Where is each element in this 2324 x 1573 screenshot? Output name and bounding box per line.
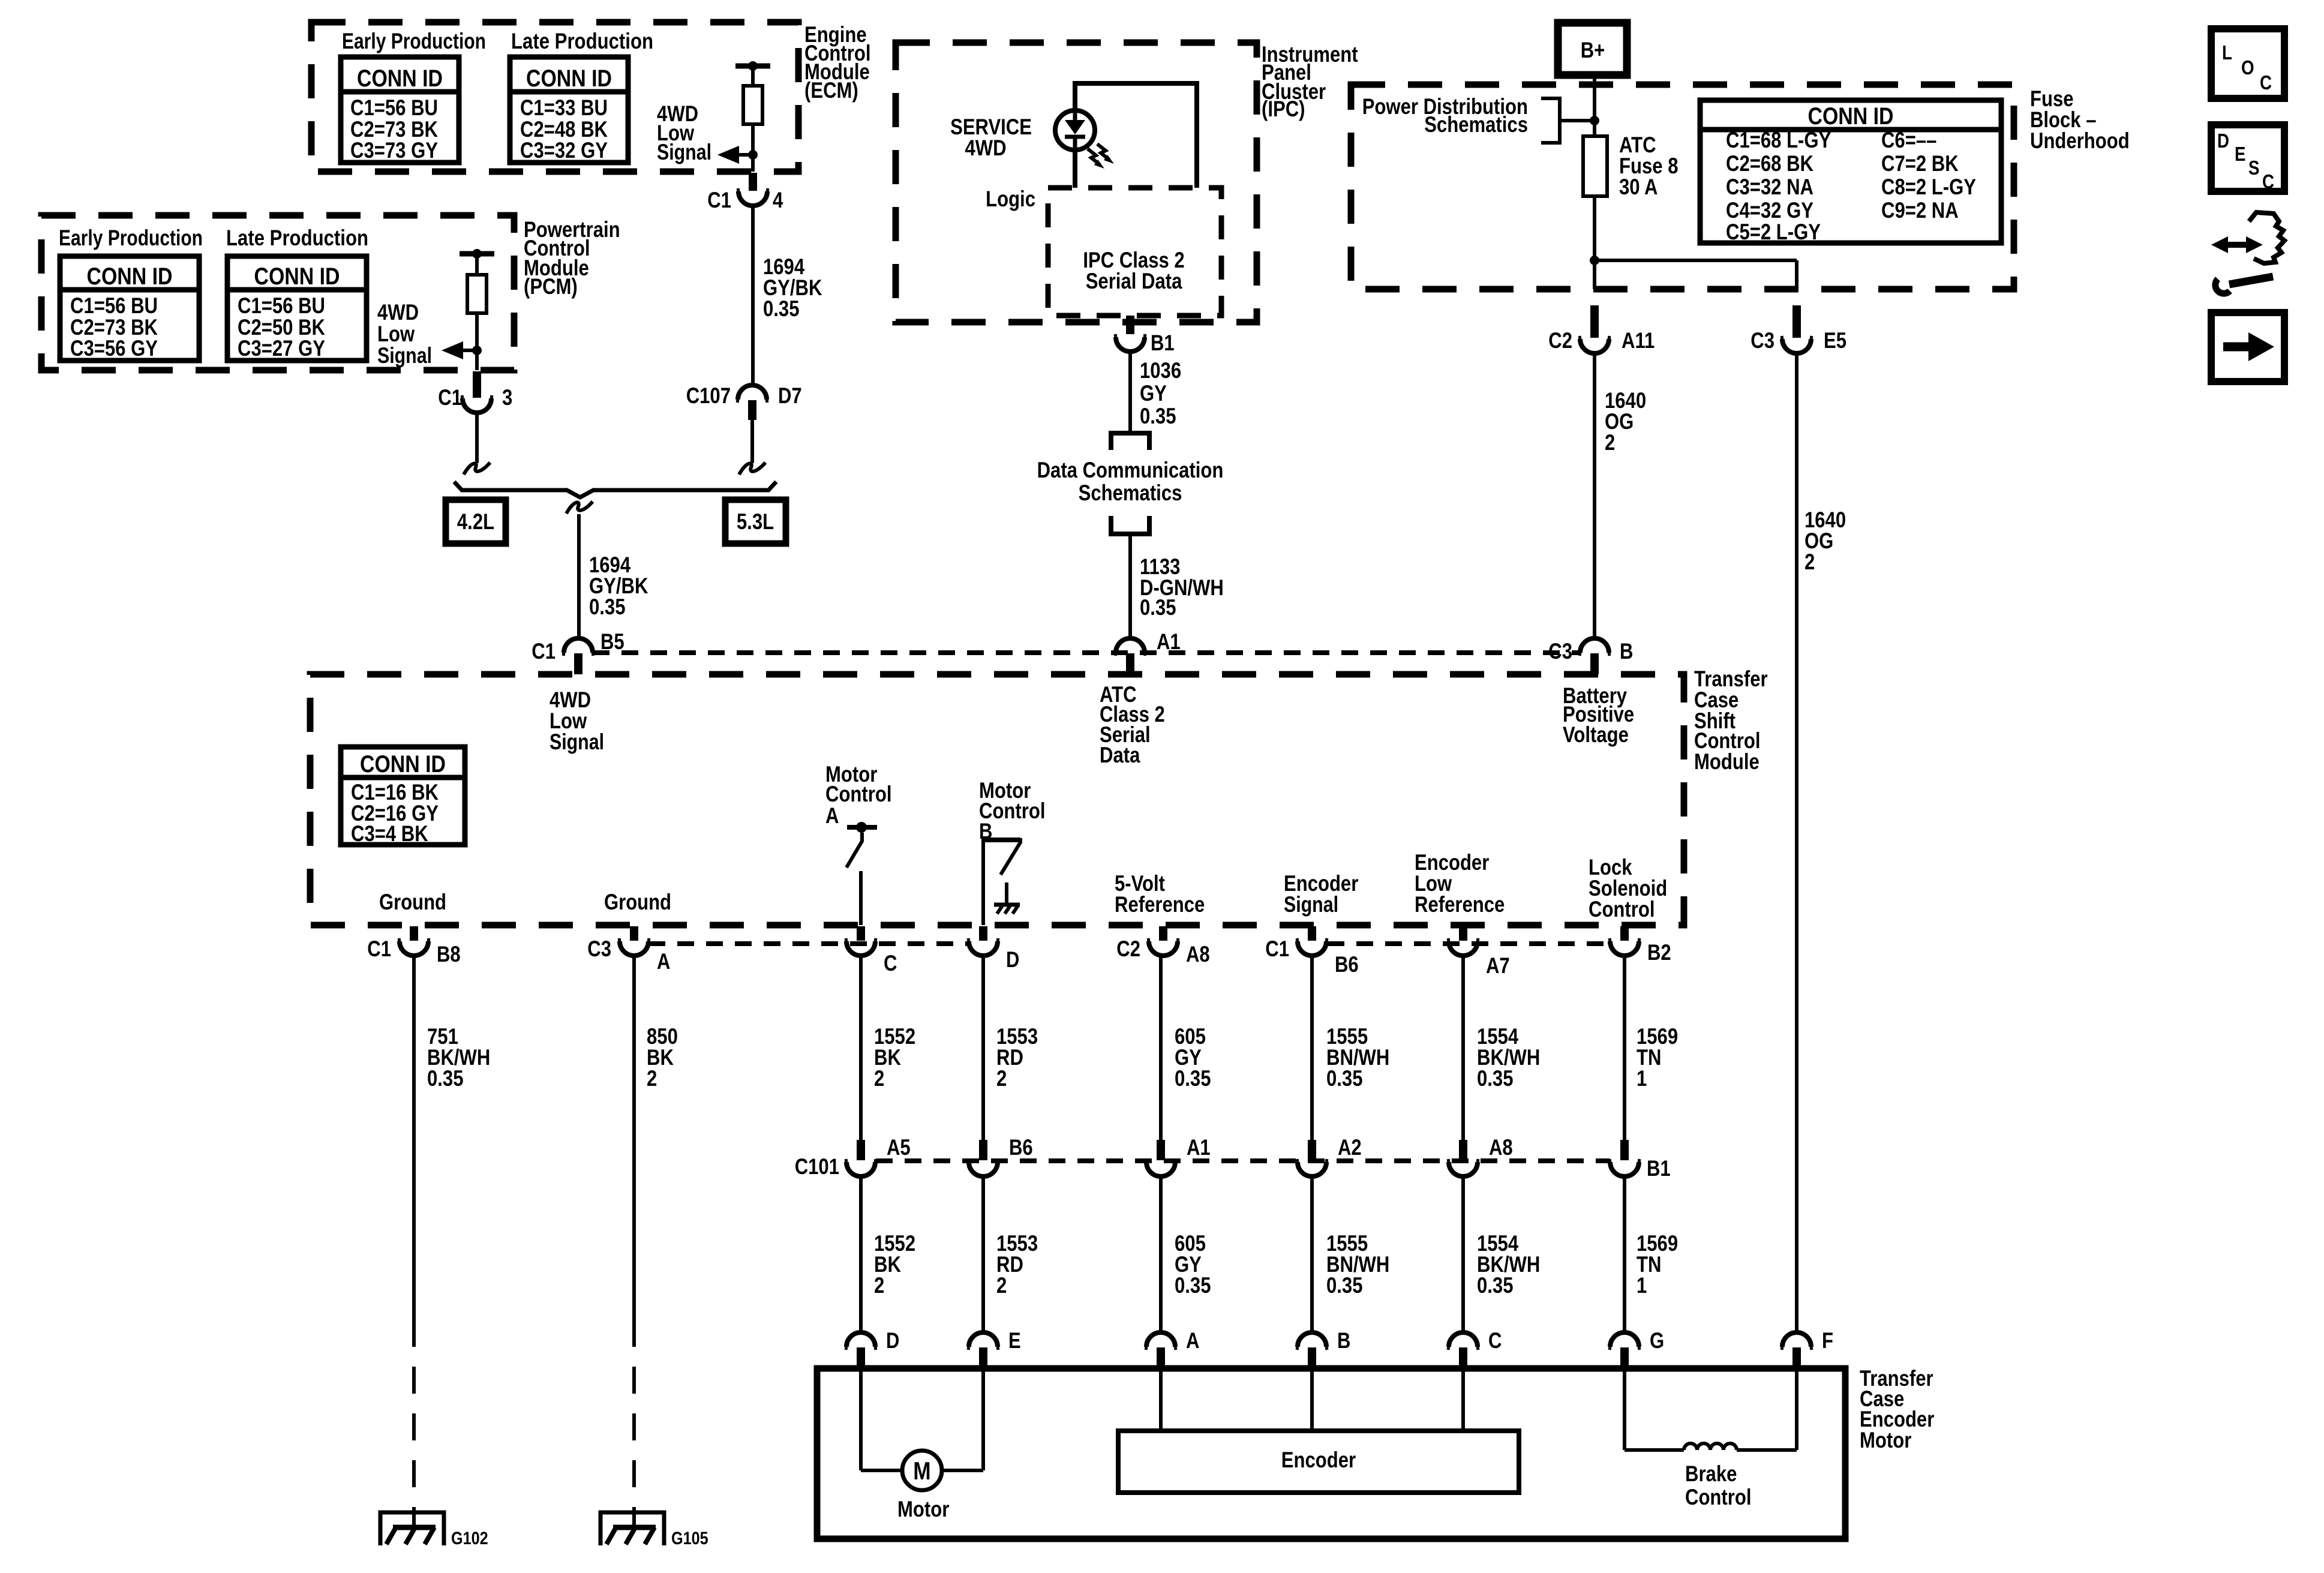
svg-text:A: A bbox=[825, 803, 839, 828]
svg-text:4.2L: 4.2L bbox=[457, 509, 494, 534]
motor M symbol bbox=[902, 1451, 942, 1490]
connector E (encoder motor) bbox=[969, 1332, 998, 1347]
svg-text:Serial Data: Serial Data bbox=[1086, 269, 1182, 293]
svg-text:C5=2 L-GY: C5=2 L-GY bbox=[1726, 220, 1821, 244]
svg-text:G102: G102 bbox=[451, 1529, 488, 1548]
PCM Late Production CONN ID table bbox=[227, 256, 367, 361]
connector Motor A out C (TCSCM bottom) bbox=[857, 926, 865, 941]
svg-text:M: M bbox=[913, 1457, 930, 1485]
svg-text:5.3L: 5.3L bbox=[737, 509, 774, 534]
connector D (encoder motor) bbox=[846, 1332, 875, 1347]
svg-text:C1: C1 bbox=[367, 936, 391, 961]
wire C107 to engine option brace bbox=[750, 420, 754, 463]
svg-text:D7: D7 bbox=[778, 383, 802, 408]
svg-text:C2: C2 bbox=[1116, 936, 1140, 961]
connector Encoder low A7 (TCSCM bottom) bbox=[1459, 926, 1467, 941]
brake control coil circuit bbox=[1623, 1368, 1626, 1450]
wire 850 BK 2 bbox=[632, 956, 636, 1320]
svg-text:Motor: Motor bbox=[1860, 1428, 1911, 1452]
svg-text:Data Communication: Data Communication bbox=[1037, 458, 1224, 482]
junction dot PCM signal bbox=[472, 346, 482, 355]
svg-text:Signal: Signal bbox=[377, 343, 432, 368]
svg-text:C7=2 BK: C7=2 BK bbox=[1881, 151, 1959, 176]
wire 1640 OG 2 (E5 down right side) bbox=[1795, 353, 1798, 1332]
fuse ATC Fuse 8 30A bbox=[1583, 136, 1607, 196]
svg-text:(ECM): (ECM) bbox=[804, 78, 858, 103]
wire 1555 BN/WH 0.35 upper bbox=[1310, 956, 1314, 1140]
svg-text:2: 2 bbox=[1605, 430, 1615, 455]
svg-text:B6: B6 bbox=[1009, 1135, 1033, 1160]
svg-text:1036: 1036 bbox=[1140, 358, 1181, 383]
arrow 4WD Low Signal (PCM) bbox=[463, 349, 477, 352]
connector B1 (IPC) bbox=[1126, 316, 1134, 334]
connector C3-B (TCSCM) bbox=[1580, 638, 1609, 653]
svg-text:F: F bbox=[1822, 1328, 1833, 1353]
ground G105 bbox=[600, 1512, 664, 1545]
engine option brace bbox=[454, 482, 776, 497]
svg-text:Schematics: Schematics bbox=[1079, 481, 1182, 505]
svg-text:Late Production: Late Production bbox=[226, 226, 368, 250]
svg-text:C3: C3 bbox=[1548, 639, 1572, 664]
connector C1-4 (ECM) bbox=[749, 173, 757, 191]
forward arrow icon box bbox=[2211, 313, 2284, 382]
connector C1-B5 bbox=[564, 638, 593, 653]
arrow 4WD Low Signal (ECM) bbox=[739, 153, 753, 157]
svg-text:A1: A1 bbox=[1157, 629, 1181, 654]
connector Ground B8 (TCSCM bottom) bbox=[410, 926, 418, 941]
internal ground (Motor Control B) bbox=[1005, 882, 1008, 905]
svg-text:4WD: 4WD bbox=[965, 136, 1007, 160]
svg-text:Encoder: Encoder bbox=[1281, 1448, 1356, 1472]
motor circuit loop bbox=[859, 1368, 863, 1470]
wire fuse to exits bbox=[1593, 196, 1596, 289]
connector C101 A8 bbox=[1459, 1140, 1467, 1160]
wire branch to E5 bbox=[1595, 259, 1797, 262]
IPC dashed box (Instrument Panel Cluster) bbox=[896, 43, 1257, 322]
svg-text:Schematics: Schematics bbox=[1424, 112, 1528, 137]
svg-text:A8: A8 bbox=[1186, 942, 1210, 966]
connector Motor B out D (TCSCM bottom) bbox=[979, 926, 987, 941]
svg-text:Control: Control bbox=[1589, 897, 1655, 921]
svg-text:Logic: Logic bbox=[986, 187, 1035, 211]
svg-text:C8=2 L-GY: C8=2 L-GY bbox=[1881, 175, 1976, 199]
resistor R-ECM pullup bbox=[735, 64, 770, 69]
svg-text:0.35: 0.35 bbox=[1175, 1066, 1211, 1091]
ECM Late Production CONN ID table bbox=[510, 57, 628, 163]
junction dot ECM signal bbox=[748, 150, 758, 160]
svg-text:C107: C107 bbox=[686, 383, 731, 408]
svg-text:B8: B8 bbox=[437, 942, 461, 966]
encoder input wires bbox=[1159, 1368, 1163, 1431]
svg-text:G105: G105 bbox=[671, 1529, 708, 1548]
svg-text:GY: GY bbox=[1140, 381, 1167, 406]
svg-text:2: 2 bbox=[1804, 550, 1815, 574]
LED SERVICE 4WD lamp bbox=[1055, 110, 1095, 150]
svg-text:4: 4 bbox=[773, 188, 783, 212]
svg-text:A8: A8 bbox=[1489, 1135, 1513, 1160]
svg-text:C3=73 GY: C3=73 GY bbox=[350, 138, 438, 163]
svg-text:Signal: Signal bbox=[1284, 892, 1338, 917]
connector C101 A5 bbox=[857, 1140, 865, 1160]
svg-text:D: D bbox=[1006, 947, 1019, 972]
Data Communication Schematics off-page symbol bbox=[1111, 433, 1149, 450]
svg-text:0.35: 0.35 bbox=[1140, 595, 1176, 620]
svg-text:Control: Control bbox=[1685, 1485, 1752, 1509]
svg-text:C1=68 L-GY: C1=68 L-GY bbox=[1726, 128, 1831, 152]
svg-text:0.35: 0.35 bbox=[1326, 1066, 1363, 1091]
svg-text:Early Production: Early Production bbox=[342, 29, 486, 53]
wire 1133 D-GN/WH 0.35 bbox=[1128, 534, 1132, 637]
dotted connector line B5-A1-B bbox=[593, 650, 1581, 655]
svg-text:Reference: Reference bbox=[1415, 892, 1505, 917]
svg-text:C1: C1 bbox=[707, 188, 731, 212]
wire 1694 GY/BK 0.35 to TCSCM bbox=[577, 514, 581, 638]
connector F (encoder motor) bbox=[1782, 1332, 1811, 1347]
svg-text:30 A: 30 A bbox=[1619, 175, 1658, 199]
svg-text:0.35: 0.35 bbox=[1477, 1066, 1514, 1091]
connector C3-E5 bbox=[1792, 305, 1801, 338]
connector C (encoder motor) bbox=[1449, 1332, 1478, 1347]
svg-text:E5: E5 bbox=[1824, 328, 1846, 353]
svg-text:A: A bbox=[657, 949, 670, 974]
svg-text:Ground: Ground bbox=[604, 890, 671, 914]
svg-text:C1=56 BU: C1=56 BU bbox=[350, 95, 438, 120]
svg-text:0.35: 0.35 bbox=[1477, 1273, 1514, 1298]
PCM Early Production CONN ID table bbox=[60, 256, 199, 361]
svg-text:C3: C3 bbox=[587, 936, 611, 961]
junction dot fuse output bbox=[1590, 256, 1599, 265]
svg-text:Brake: Brake bbox=[1685, 1461, 1737, 1486]
svg-text:C3=32 GY: C3=32 GY bbox=[520, 138, 608, 163]
svg-text:C3=4 BK: C3=4 BK bbox=[351, 821, 428, 846]
ECM dashed box (Engine Control Module) bbox=[311, 22, 798, 172]
svg-text:Signal: Signal bbox=[657, 140, 711, 164]
adjust wrench icon bbox=[2226, 242, 2248, 248]
connector C101 B1 bbox=[1620, 1140, 1629, 1160]
B+ battery feed box bbox=[1558, 23, 1627, 75]
wire 1036 GY 0.35 bbox=[1128, 352, 1132, 433]
svg-text:C3=32 NA: C3=32 NA bbox=[1726, 175, 1813, 199]
wire break squiggle (ECM side) bbox=[739, 463, 765, 475]
svg-text:0.35: 0.35 bbox=[763, 296, 800, 321]
svg-text:2: 2 bbox=[874, 1066, 884, 1091]
wire 1552 BK 2 lower bbox=[859, 1176, 863, 1332]
svg-text:(IPC): (IPC) bbox=[1262, 97, 1305, 121]
svg-text:Ground: Ground bbox=[379, 890, 446, 914]
wire 1694 GY/BK 0.35 (ECM to C107) bbox=[751, 206, 755, 385]
LED light arrows bbox=[1088, 149, 1100, 164]
svg-text:C: C bbox=[1488, 1328, 1502, 1353]
svg-text:B: B bbox=[1620, 639, 1633, 664]
svg-text:C1: C1 bbox=[438, 385, 462, 410]
svg-text:A7: A7 bbox=[1486, 953, 1510, 978]
svg-text:S: S bbox=[2248, 157, 2260, 179]
svg-text:C3=56 GY: C3=56 GY bbox=[70, 336, 158, 361]
svg-text:C4=32 GY: C4=32 GY bbox=[1726, 198, 1813, 223]
dotted connector line A-C-D bbox=[648, 941, 968, 946]
svg-text:2: 2 bbox=[874, 1273, 884, 1298]
svg-text:B5: B5 bbox=[600, 629, 624, 654]
svg-text:E: E bbox=[2235, 143, 2246, 165]
connector C101 B6 bbox=[979, 1140, 987, 1160]
dotted connector line B6-A7-B2 bbox=[1328, 941, 1609, 946]
Fuse Block CONN ID table bbox=[1700, 100, 2001, 243]
svg-text:A1: A1 bbox=[1187, 1135, 1211, 1160]
svg-text:0.35: 0.35 bbox=[1175, 1273, 1211, 1298]
svg-text:1: 1 bbox=[1637, 1066, 1647, 1091]
svg-text:2: 2 bbox=[647, 1066, 657, 1091]
engine 5.3L box bbox=[725, 500, 786, 544]
svg-text:E: E bbox=[1008, 1328, 1021, 1353]
connector Encoder signal B6 (TCSCM bottom) bbox=[1308, 926, 1316, 941]
wire resistor to ECM exit bbox=[751, 124, 755, 172]
svg-text:Late Production: Late Production bbox=[511, 29, 653, 53]
wire 605 GY 0.35 lower bbox=[1159, 1176, 1163, 1332]
svg-text:4WD: 4WD bbox=[377, 300, 419, 325]
svg-text:B+: B+ bbox=[1581, 38, 1605, 62]
wire 1554 BK/WH 0.35 upper bbox=[1461, 956, 1465, 1140]
svg-text:2: 2 bbox=[996, 1066, 1007, 1091]
wire 1555 BN/WH 0.35 lower bbox=[1310, 1176, 1314, 1332]
connector C107 D7 bbox=[738, 385, 767, 400]
svg-text:C3: C3 bbox=[1750, 328, 1774, 353]
svg-text:C101: C101 bbox=[795, 1154, 839, 1179]
wire 1569 TN 1 lower bbox=[1623, 1176, 1626, 1332]
connector 5V ref A8 (TCSCM bottom) bbox=[1159, 926, 1167, 941]
wire B+ to fuse bbox=[1593, 75, 1596, 136]
connector B (encoder motor) bbox=[1298, 1332, 1326, 1347]
svg-text:CONN ID: CONN ID bbox=[360, 751, 446, 778]
svg-text:C: C bbox=[884, 951, 897, 975]
wire break squiggle (merged) bbox=[566, 502, 593, 514]
svg-text:CONN ID: CONN ID bbox=[357, 65, 443, 92]
svg-text:A5: A5 bbox=[887, 1135, 911, 1160]
svg-text:Voltage: Voltage bbox=[1563, 722, 1629, 747]
svg-text:CONN ID: CONN ID bbox=[1808, 103, 1894, 130]
svg-text:B2: B2 bbox=[1647, 940, 1671, 965]
svg-text:G: G bbox=[1650, 1328, 1664, 1353]
Fuse Block dashed box bbox=[1351, 85, 2014, 289]
IPC Class 2 Serial Data dashed box bbox=[1048, 188, 1221, 316]
resistor R-PCM pullup bbox=[460, 251, 494, 257]
connector C101 A1 bbox=[1157, 1140, 1165, 1160]
svg-text:CONN ID: CONN ID bbox=[254, 263, 340, 290]
svg-text:C2=68 BK: C2=68 BK bbox=[1726, 151, 1813, 176]
wire 1569 TN 1 upper bbox=[1623, 956, 1626, 1140]
svg-text:C3=27 GY: C3=27 GY bbox=[238, 336, 325, 361]
svg-text:A: A bbox=[1186, 1328, 1199, 1353]
svg-text:CONN ID: CONN ID bbox=[526, 65, 612, 92]
svg-text:0.35: 0.35 bbox=[589, 595, 626, 619]
svg-text:D: D bbox=[2217, 130, 2229, 152]
svg-text:C1=56 BU: C1=56 BU bbox=[70, 293, 158, 318]
inductor brake coil bbox=[1684, 1443, 1737, 1450]
svg-text:Module: Module bbox=[1694, 749, 1759, 774]
connector A (encoder motor) bbox=[1146, 1332, 1175, 1347]
svg-text:C2: C2 bbox=[1548, 328, 1572, 353]
PCM dashed box (Powertrain Control Module) bbox=[41, 215, 514, 370]
svg-text:A11: A11 bbox=[1622, 328, 1655, 353]
svg-text:C1=33 BU: C1=33 BU bbox=[520, 95, 608, 120]
connector A1 (TCSCM) bbox=[1116, 638, 1145, 653]
svg-text:B6: B6 bbox=[1335, 952, 1359, 977]
wire 605 GY 0.35 upper bbox=[1159, 956, 1163, 1140]
svg-text:C1: C1 bbox=[1265, 936, 1289, 961]
svg-text:1: 1 bbox=[1637, 1273, 1647, 1298]
svg-text:C1: C1 bbox=[532, 639, 556, 664]
switch Motor Control A bbox=[847, 825, 877, 830]
TCSCM CONN ID table bbox=[341, 747, 465, 845]
wire 1553 RD 2 upper bbox=[981, 956, 985, 1140]
wire 1554 BK/WH 0.35 lower bbox=[1461, 1176, 1465, 1332]
svg-text:Reference: Reference bbox=[1115, 892, 1205, 917]
svg-text:C: C bbox=[2262, 170, 2274, 193]
svg-text:B: B bbox=[1337, 1328, 1350, 1353]
svg-text:Low: Low bbox=[377, 322, 415, 346]
svg-text:C6=––: C6=–– bbox=[1881, 128, 1936, 152]
svg-text:B1: B1 bbox=[1647, 1156, 1671, 1181]
connector Lock solenoid B2 (TCSCM bottom) bbox=[1620, 926, 1629, 941]
svg-text:Underhood: Underhood bbox=[2030, 128, 2130, 153]
svg-text:2: 2 bbox=[996, 1273, 1007, 1298]
LOC icon box bbox=[2211, 29, 2284, 98]
ECM Early Production CONN ID table bbox=[341, 57, 459, 163]
svg-text:3: 3 bbox=[502, 385, 512, 410]
connector Ground A (TCSCM bottom) bbox=[630, 926, 638, 941]
IPC indicator circuit box bbox=[1075, 83, 1197, 188]
wire 1553 RD 2 lower bbox=[981, 1176, 985, 1332]
connector C101 A2 bbox=[1308, 1140, 1316, 1160]
Transfer Case Encoder Motor box bbox=[817, 1368, 1845, 1539]
svg-text:C1=56 BU: C1=56 BU bbox=[238, 293, 325, 318]
DESC icon box bbox=[2211, 125, 2284, 191]
svg-text:D: D bbox=[886, 1328, 899, 1353]
svg-text:B1: B1 bbox=[1151, 331, 1175, 355]
svg-text:Motor: Motor bbox=[897, 1497, 949, 1521]
switch Motor Control B bbox=[983, 840, 1020, 925]
svg-text:C: C bbox=[2260, 71, 2272, 94]
ground G102 bbox=[380, 1512, 444, 1545]
wire 1552 BK 2 upper bbox=[859, 956, 863, 1140]
dotted connector line C101 bbox=[876, 1158, 1610, 1163]
svg-text:Control: Control bbox=[825, 782, 892, 806]
svg-text:CONN ID: CONN ID bbox=[87, 263, 173, 290]
svg-text:0.35: 0.35 bbox=[1326, 1273, 1363, 1298]
svg-text:Signal: Signal bbox=[550, 730, 604, 754]
engine 4.2L box bbox=[446, 500, 506, 544]
svg-text:0.35: 0.35 bbox=[427, 1066, 464, 1091]
connector C1-3 (PCM) bbox=[473, 371, 481, 398]
svg-text:0.35: 0.35 bbox=[1140, 404, 1176, 428]
wire 1640 OG 2 (A11 to B) bbox=[1593, 353, 1596, 637]
power distribution bracket bbox=[1541, 98, 1560, 143]
svg-text:L: L bbox=[2222, 41, 2232, 64]
svg-text:O: O bbox=[2241, 56, 2254, 79]
wire 751 BK/WH 0.35 bbox=[412, 956, 416, 1320]
encoder box bbox=[1118, 1431, 1519, 1493]
svg-text:A2: A2 bbox=[1338, 1135, 1362, 1160]
svg-text:C9=2 NA: C9=2 NA bbox=[1881, 198, 1959, 223]
Transfer Case Shift Control Module dashed box bbox=[310, 674, 1684, 925]
connector C2-A11 bbox=[1590, 305, 1599, 338]
wire PCM to engine option brace bbox=[475, 413, 479, 463]
svg-text:(PCM): (PCM) bbox=[524, 274, 578, 299]
wire break squiggle (PCM side) bbox=[464, 463, 490, 475]
connector G (encoder motor) bbox=[1610, 1332, 1639, 1347]
svg-text:Early Production: Early Production bbox=[59, 226, 203, 250]
wire resistor to PCM exit bbox=[475, 313, 479, 370]
svg-text:Data: Data bbox=[1100, 743, 1140, 767]
